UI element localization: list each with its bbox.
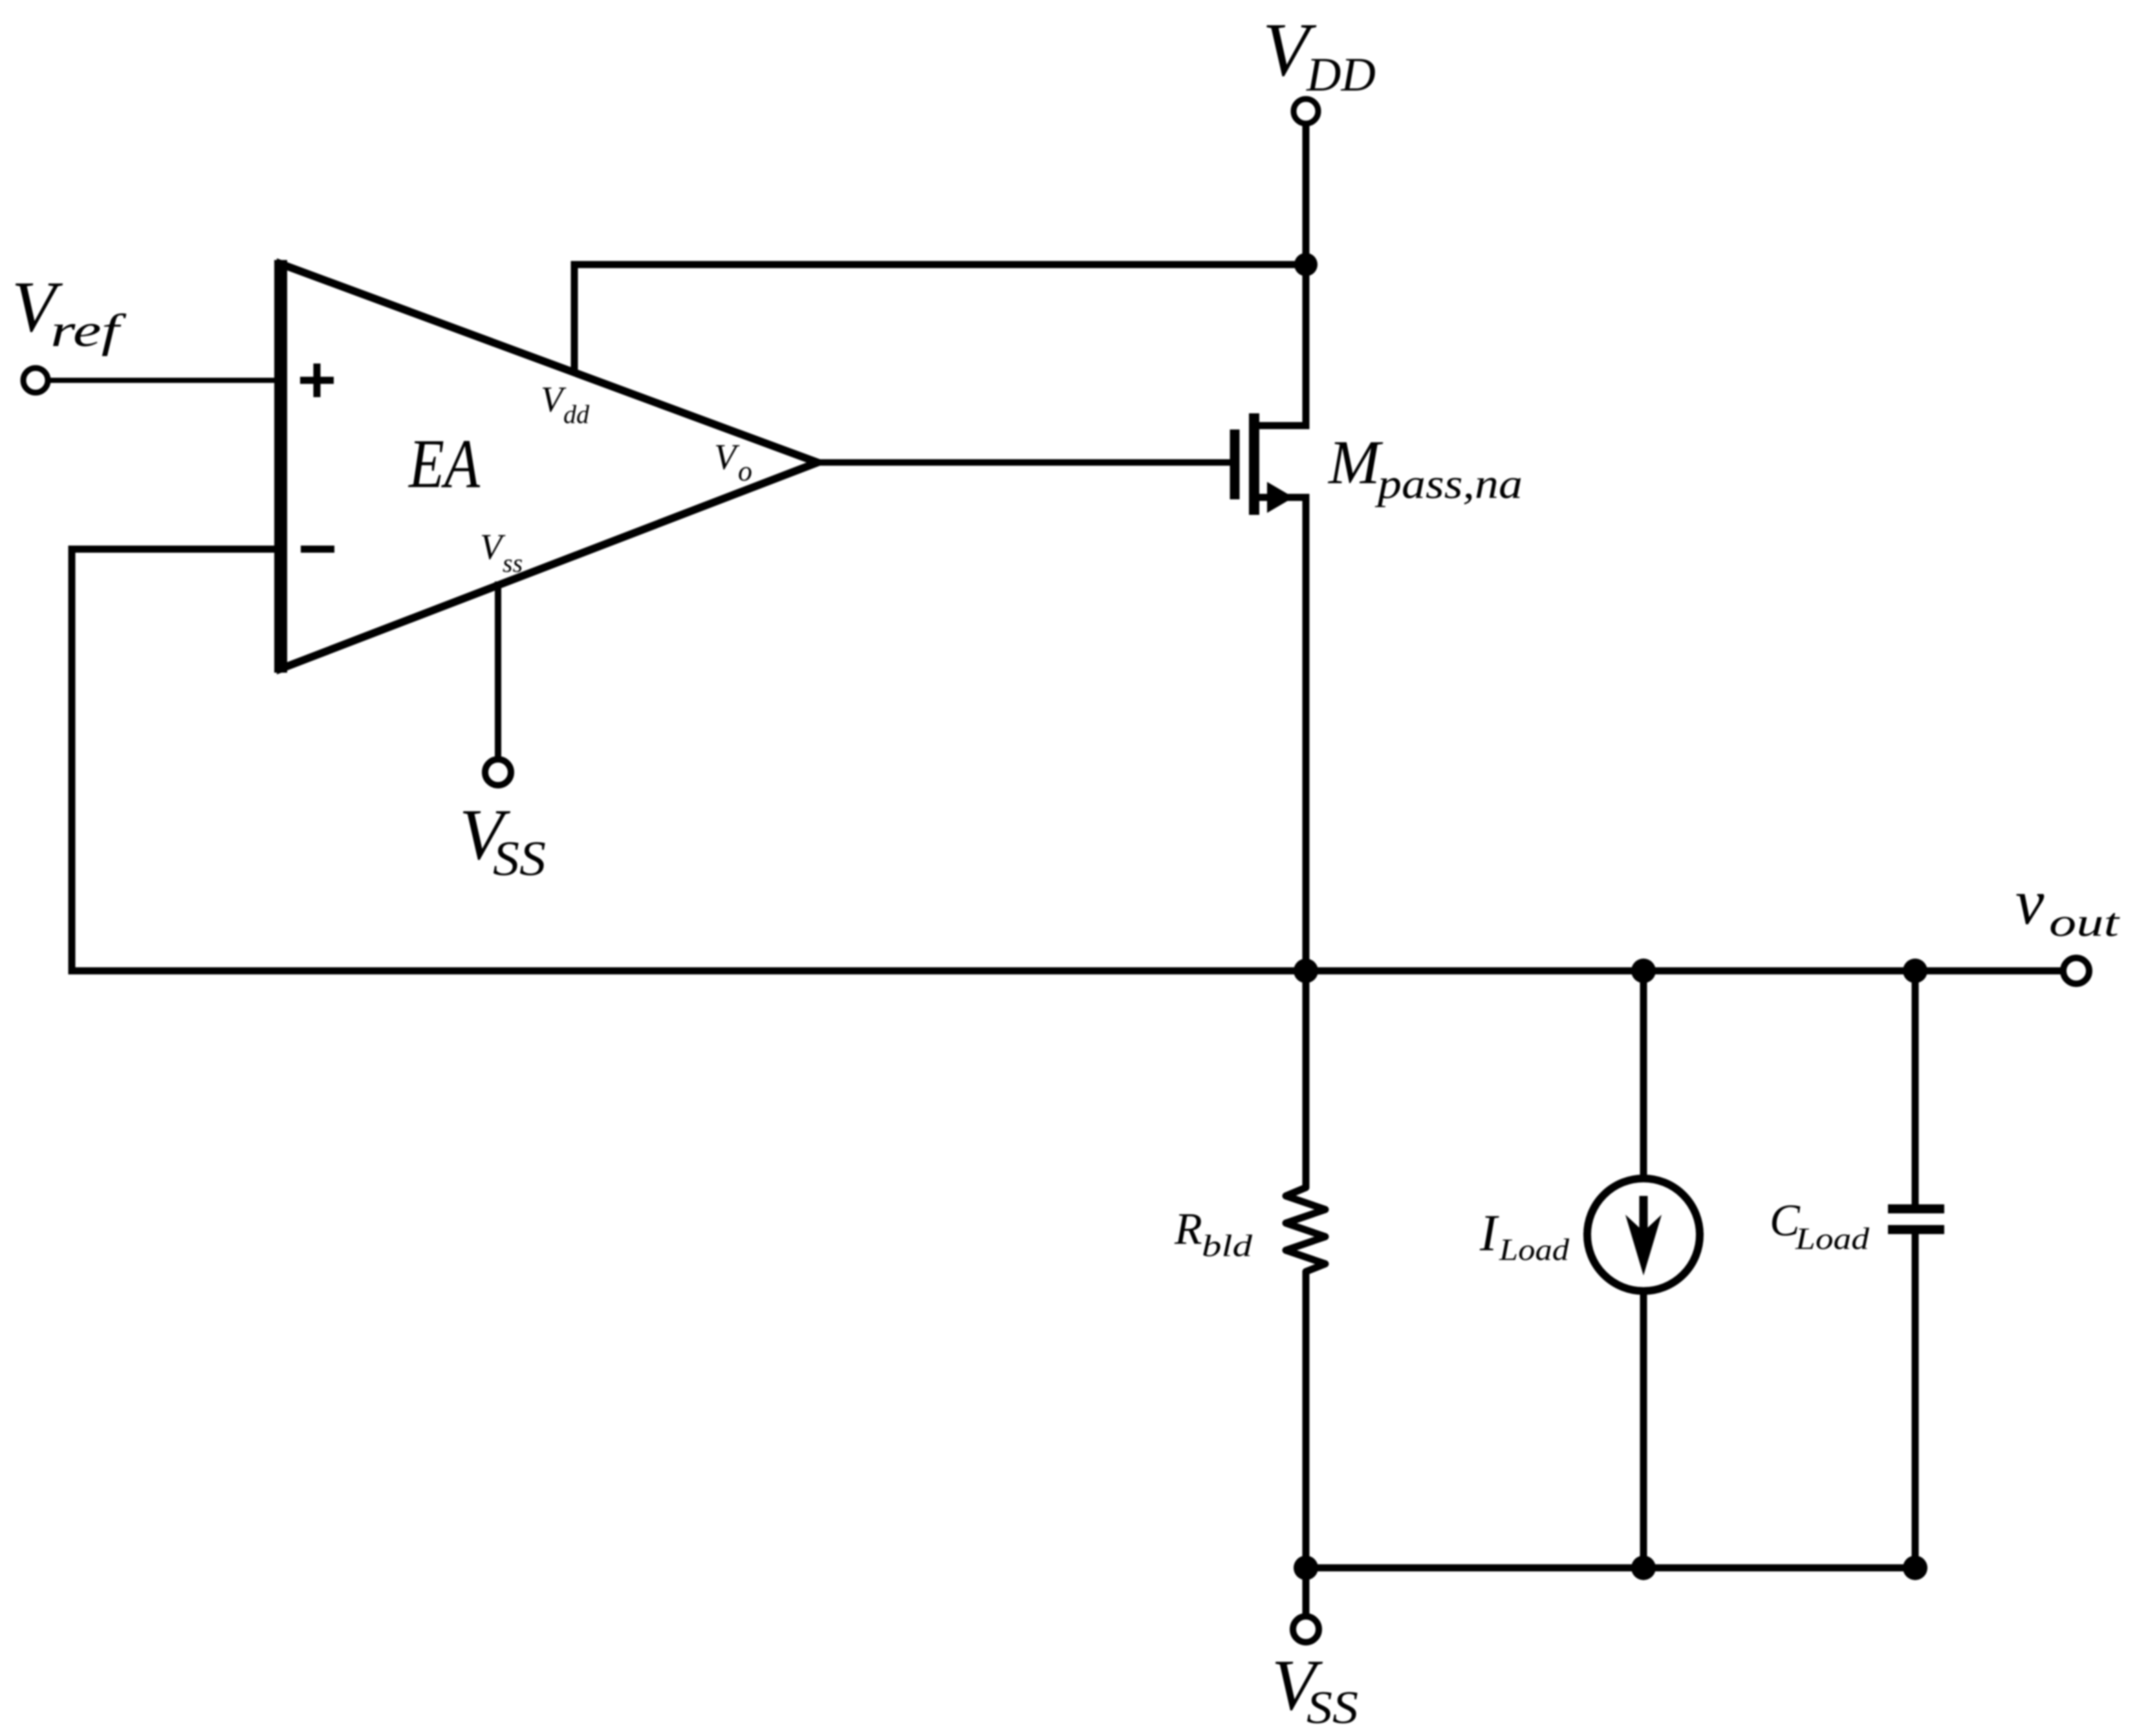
svg-text:V: V (480, 527, 506, 567)
svg-text:I: I (1479, 1205, 1499, 1262)
svg-text:pass,na: pass,na (1375, 461, 1523, 508)
svg-text:SS: SS (493, 832, 546, 886)
svg-text:R: R (1174, 1204, 1202, 1254)
svg-text:dd: dd (563, 400, 590, 429)
svg-text:ss: ss (503, 548, 523, 578)
svg-text:SS: SS (1307, 1682, 1358, 1733)
svg-text:M: M (1327, 428, 1383, 497)
svg-text:Load: Load (1499, 1233, 1570, 1267)
svg-text:ref: ref (50, 305, 127, 356)
svg-text:bld: bld (1202, 1229, 1253, 1263)
svg-text:V: V (541, 380, 567, 420)
svg-text:DD: DD (1306, 49, 1376, 102)
svg-text:v: v (2015, 866, 2045, 938)
svg-text:EA: EA (407, 426, 481, 503)
svg-text:o: o (738, 455, 752, 487)
svg-text:Load: Load (1795, 1222, 1870, 1256)
svg-text:out: out (2049, 901, 2120, 945)
svg-text:V: V (714, 437, 740, 477)
